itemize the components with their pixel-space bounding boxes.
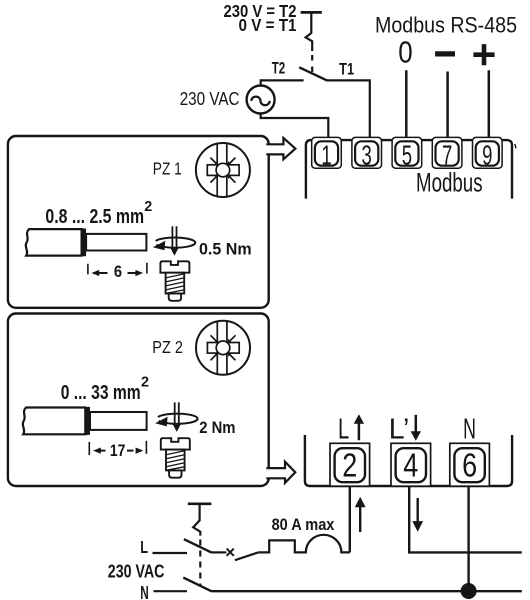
wire source top to T2 contact: [261, 80, 304, 85]
current arrow down: [412, 498, 423, 532]
svg-text:2: 2: [141, 374, 149, 390]
svg-text:2: 2: [342, 447, 357, 484]
svg-text:PZ 1: PZ 1: [153, 159, 182, 179]
svg-text:2 Nm: 2 Nm: [199, 418, 235, 437]
svg-text:N: N: [463, 414, 476, 446]
wire terminal 4 to load: [409, 486, 522, 552]
terminal screw PZ1: [160, 261, 189, 301]
svg-text:3: 3: [362, 140, 372, 171]
wire T1 contact to terminal 3: [327, 80, 370, 137]
mains switch actuator bar: [188, 502, 212, 505]
svg-text:N: N: [140, 582, 149, 600]
svg-text:Modbus: Modbus: [416, 168, 483, 198]
svg-text:17: 17: [110, 441, 126, 460]
svg-text:L: L: [140, 537, 148, 557]
stripped conductor PZ2: [90, 412, 147, 430]
scan artifact tick: [515, 144, 516, 148]
svg-text:L: L: [338, 414, 349, 446]
terminal block power outline: [305, 435, 512, 486]
wire 0 to terminal 5: [405, 70, 408, 137]
label L' arrow down: [411, 415, 421, 441]
screwdriver torque icon PZ2: [155, 402, 197, 432]
terminal 6: [450, 443, 490, 486]
wire L pole out: [212, 551, 227, 553]
wire N in: [154, 590, 188, 592]
AC source sine symbol: [251, 97, 269, 106]
svg-text:7: 7: [442, 140, 452, 171]
wire plus to terminal 9: [488, 70, 491, 137]
cable insulation body PZ2: [23, 408, 86, 435]
cable cut face PZ2: [85, 407, 90, 435]
mains switch actuator dashed link: [199, 540, 201, 586]
svg-text:6: 6: [462, 447, 477, 484]
terminal 3: [352, 137, 382, 170]
mains switch actuator spring link: [193, 505, 200, 536]
dimension 17 mm: [89, 441, 146, 460]
instruction box PZ2: [8, 314, 269, 487]
wire L in: [153, 552, 188, 554]
svg-text:9: 9: [482, 140, 492, 171]
svg-text:230 VAC: 230 VAC: [108, 562, 165, 582]
svg-text:0.5 Nm: 0.5 Nm: [199, 240, 252, 258]
screwdriver torque icon PZ1: [153, 226, 195, 256]
svg-text:PZ 2: PZ 2: [152, 337, 183, 357]
wire source bottom to terminal 1: [261, 113, 329, 137]
cable cut face: [82, 229, 87, 257]
svg-text:2: 2: [144, 199, 152, 215]
wire minus to terminal 7: [446, 72, 449, 138]
tariff note text 230V=T2 / 0V=T1: [224, 1, 297, 35]
svg-text:T2: T2: [272, 60, 286, 78]
svg-text:0.8 ... 2.5 mm: 0.8 ... 2.5 mm: [45, 205, 144, 228]
dimension 6 mm: [88, 262, 147, 281]
junction node: [461, 583, 477, 599]
svg-text:0 V = T1: 0 V = T1: [239, 15, 297, 35]
tariff actuator bar: [301, 11, 322, 14]
terminal 1: [312, 137, 342, 170]
label minus: [435, 51, 455, 56]
AC source G1 circle: [247, 86, 275, 114]
terminal screw PZ2: [161, 438, 190, 478]
stripped conductor: [86, 234, 146, 251]
terminal 7: [432, 137, 462, 170]
svg-text:T1: T1: [339, 61, 354, 79]
svg-text:L’: L’: [389, 414, 410, 446]
current arrow up: [355, 497, 366, 532]
terminal 4: [391, 443, 431, 486]
mains switch L pole lever: [184, 539, 212, 552]
tariff actuator dashed link: [311, 55, 313, 76]
tariff switch lever: [299, 67, 327, 80]
arrow from PZ2 box to power terminals: [266, 462, 295, 483]
tariff actuator spring link: [306, 14, 313, 52]
terminal 9: [473, 137, 503, 170]
breaker 80 A max symbol: [258, 535, 350, 553]
mains switch N pole lever: [183, 578, 211, 592]
svg-text:5: 5: [402, 140, 412, 171]
svg-text:230 VAC: 230 VAC: [180, 88, 240, 109]
terminal 5: [392, 137, 422, 170]
svg-text:Modbus RS-485: Modbus RS-485: [375, 12, 517, 37]
svg-text:1: 1: [321, 140, 331, 171]
label L arrow up: [354, 414, 364, 440]
Pozidriv bit icon PZ2: [196, 321, 250, 375]
label plus: [473, 44, 494, 65]
svg-text:0: 0: [398, 34, 412, 69]
Pozidriv bit icon PZ1: [196, 143, 250, 197]
terminal block Modbus outline: [306, 140, 512, 199]
terminal 2: [330, 443, 370, 486]
disconnect marker x: [227, 549, 234, 556]
svg-text:80 A max: 80 A max: [272, 516, 335, 534]
svg-text:6: 6: [114, 262, 122, 281]
wire terminal 2 down: [349, 486, 351, 552]
arrow from PZ1 box to Modbus terminals: [266, 138, 295, 159]
svg-text:0 ... 33 mm: 0 ... 33 mm: [61, 381, 141, 404]
instruction box PZ1: [8, 136, 269, 308]
wire diagonal to breaker: [235, 552, 258, 560]
wire N out: [212, 590, 522, 592]
wire terminal 6 to neutral: [467, 486, 469, 591]
svg-text:4: 4: [403, 447, 418, 484]
cable insulation body: [26, 229, 82, 256]
